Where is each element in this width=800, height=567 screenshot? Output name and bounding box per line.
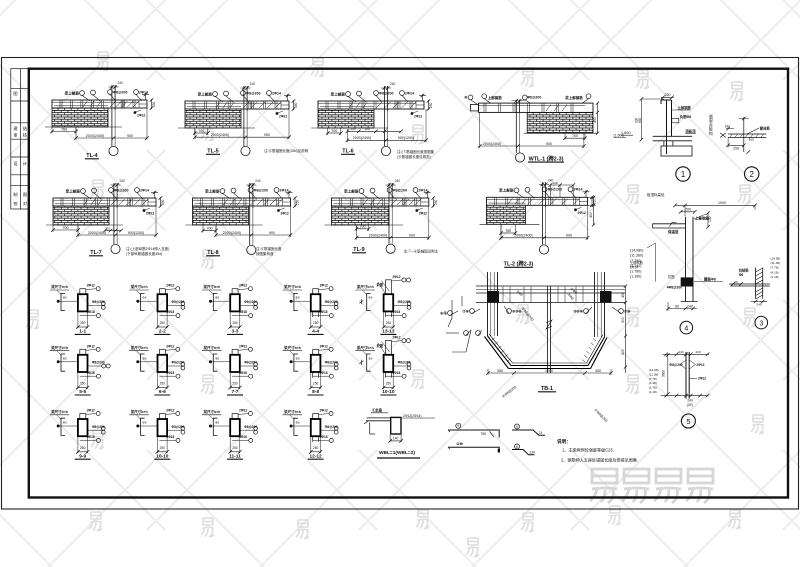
svg-text:TL-5: TL-5 xyxy=(207,149,218,155)
detail 3: bottom dim xyxy=(751,301,767,303)
detail TB-1: joint blocks xyxy=(487,291,499,303)
svg-text:审: 审 xyxy=(13,132,17,139)
svg-text:窗台筋: 窗台筋 xyxy=(760,125,771,130)
detail 3: left dim xyxy=(729,283,741,285)
svg-text:9: 9 xyxy=(457,424,459,428)
section 7-7: beam section xyxy=(230,355,240,372)
svg-text:Φ6: Φ6 xyxy=(739,273,744,277)
detail TL-4: rebar leaders xyxy=(80,91,85,96)
rebar shape detail a3: shape xyxy=(448,447,499,452)
svg-text:Φ6: Φ6 xyxy=(63,356,67,360)
svg-text:250: 250 xyxy=(313,382,319,386)
svg-text:梁尺寸b×h: 梁尺寸b×h xyxy=(203,345,221,350)
section 7-7: width dimension xyxy=(230,373,240,389)
section 10-10: width dimension xyxy=(158,437,168,453)
detail TL-4: sub dimension xyxy=(51,127,53,134)
detail TL-7: beam xyxy=(53,198,156,206)
detail TL-8: beam xyxy=(193,198,291,206)
detail WTL-1: beam left end cap xyxy=(470,105,478,111)
svg-text:240: 240 xyxy=(120,179,126,183)
svg-text:1-1: 1-1 xyxy=(79,329,86,335)
detail TL-9: column xyxy=(386,183,396,244)
detail 1: left vertical dim xyxy=(640,97,664,141)
svg-text:TL-2 (跨2-3): TL-2 (跨2-3) xyxy=(504,260,534,268)
section 11-11: width dimension xyxy=(230,437,240,453)
svg-text:TL-7: TL-7 xyxy=(90,250,101,256)
detail TB-1: leader circles left xyxy=(448,311,453,316)
detail TL-9: beam diagonal hatch xyxy=(391,199,421,205)
svg-text:2Φ12: 2Φ12 xyxy=(392,275,400,279)
svg-text:(1.780): (1.780) xyxy=(630,269,641,273)
detail TB-1: leader circles right xyxy=(584,309,589,314)
svg-text:3Φ18: 3Φ18 xyxy=(320,435,328,439)
section WBL: slab xyxy=(366,418,391,421)
svg-text:(14.980): (14.980) xyxy=(630,249,643,253)
rebar shape detail a1: label xyxy=(456,423,461,428)
section 5-5: stirrup bracket xyxy=(61,354,65,371)
svg-text:⑦⑧: ⑦⑧ xyxy=(624,308,631,313)
svg-text:2Φ12: 2Φ12 xyxy=(320,344,328,348)
svg-text:2Φ12: 2Φ12 xyxy=(239,409,247,413)
svg-text:负筋: 负筋 xyxy=(376,282,383,287)
rebar shape detail a2: shape xyxy=(512,430,545,435)
detail TL-9: sub dimension xyxy=(356,225,358,231)
svg-text:3-3: 3-3 xyxy=(232,329,239,335)
section 13-13: beam section xyxy=(384,294,394,311)
detail 2: star mark xyxy=(720,133,726,138)
detail WTL-1: rebar leaders xyxy=(468,95,473,100)
detail TL-7: brick wall xyxy=(53,206,109,225)
detail TL-8: beam end hook and dim xyxy=(286,191,297,208)
detail TL-9: axis circle xyxy=(386,244,395,253)
svg-text:构: 构 xyxy=(709,131,713,136)
section 8-8: stirrup bracket xyxy=(294,354,298,371)
svg-text:Φ8@200: Φ8@200 xyxy=(393,188,407,192)
section 12-12: stirrup bracket xyxy=(294,418,298,435)
svg-text:140: 140 xyxy=(393,437,399,441)
detail 3: slab lines xyxy=(730,284,770,286)
section 7-7: left bar blob xyxy=(209,360,212,363)
svg-text:注:⑥筋锚固长度: 注:⑥筋锚固长度 xyxy=(256,246,282,251)
svg-text:5-5: 5-5 xyxy=(79,389,86,395)
section 7-7: stirrup bracket xyxy=(213,354,217,371)
section 11-11: slab stub xyxy=(232,414,238,420)
section 3-3: width dimension xyxy=(230,312,240,328)
svg-text:2Φ12(2Φ14): 2Φ12(2Φ14) xyxy=(403,414,421,418)
section 6-6: stirrup bracket xyxy=(141,354,145,371)
watermark logo bottom right xyxy=(590,469,713,503)
svg-text:240: 240 xyxy=(395,179,401,183)
svg-text:Φ8@200: Φ8@200 xyxy=(113,90,127,94)
section 3-3: stirrup bracket xyxy=(213,293,217,310)
svg-text:(7.78): (7.78) xyxy=(771,266,779,270)
detail TL-8: beam stirrups xyxy=(195,199,279,206)
svg-text:TL-8: TL-8 xyxy=(207,250,218,256)
detail 2: leader xyxy=(747,128,759,134)
svg-text:梁尺寸b×h: 梁尺寸b×h xyxy=(130,345,148,350)
signature strip table xyxy=(11,69,29,209)
detail TL-5: beam stirrups xyxy=(187,102,277,109)
svg-text:(下部纵筋锚固长度35d): (下部纵筋锚固长度35d) xyxy=(126,251,162,256)
detail TL-6: brick wall xyxy=(318,109,374,128)
section 13-13: lower stub xyxy=(386,311,392,317)
svg-text:2Φ12: 2Φ12 xyxy=(698,377,706,381)
section 10-10b: slab stub xyxy=(386,340,392,354)
detail TL-5: beam diagonal hatch xyxy=(243,102,281,108)
svg-text:(⑥筋锚固长度见规范): (⑥筋锚固长度见规范) xyxy=(397,154,431,159)
svg-text:250: 250 xyxy=(434,199,438,205)
detail TL-8: ground line xyxy=(186,224,263,226)
rebar shape detail a1: shape xyxy=(448,430,499,438)
svg-text:Φ8@200: Φ8@200 xyxy=(172,300,185,304)
svg-text:250: 250 xyxy=(313,321,319,325)
section 8-8: slab stub xyxy=(313,349,319,355)
svg-text:拉结筋: 拉结筋 xyxy=(739,268,750,273)
section 6-6: width dimension xyxy=(158,373,168,389)
svg-text:①负筋: ①负筋 xyxy=(372,408,383,413)
svg-text:梁上部钢筋: 梁上部钢筋 xyxy=(564,95,583,100)
detail 5: bottom dim xyxy=(661,395,709,397)
svg-text:TB-1: TB-1 xyxy=(541,386,553,392)
section 5-5: width dimension xyxy=(78,373,88,389)
svg-text:2Φ12: 2Φ12 xyxy=(419,212,427,216)
detail 1: wall lines xyxy=(661,100,672,154)
detail WTL-1: axis circle xyxy=(515,153,524,162)
detail 4: waist bar leader xyxy=(694,281,723,283)
detail TL-7: column xyxy=(111,183,121,244)
svg-text:梁尺寸b×h: 梁尺寸b×h xyxy=(356,284,374,289)
svg-text:1000: 1000 xyxy=(718,201,726,205)
svg-text:腰筋Φ8: 腰筋Φ8 xyxy=(703,277,716,282)
svg-text:梁尺寸b×h: 梁尺寸b×h xyxy=(356,345,374,350)
detail TL-4: main dimensions xyxy=(75,128,77,140)
svg-text:梁上部筋: 梁上部筋 xyxy=(330,91,346,96)
detail TL-2: beam xyxy=(487,197,588,205)
svg-text:240: 240 xyxy=(695,350,700,354)
svg-text:60: 60 xyxy=(750,137,754,141)
detail 4: bottom dims xyxy=(668,308,697,310)
svg-text:⑦⑧: ⑦⑧ xyxy=(463,308,470,313)
svg-text:240: 240 xyxy=(390,82,396,86)
section 10-10: beam section xyxy=(158,419,168,436)
section 5-5: slab stub xyxy=(80,349,86,355)
svg-text:5: 5 xyxy=(516,425,518,429)
svg-text:250: 250 xyxy=(80,446,86,450)
detail TB-1: leg hatch xyxy=(492,338,596,362)
svg-text:700: 700 xyxy=(331,129,337,133)
svg-text:(4.18): (4.18) xyxy=(771,270,779,274)
svg-text:2Φ12: 2Φ12 xyxy=(279,115,287,119)
detail TL-4: column xyxy=(109,85,119,146)
detail TL-4: brick wall xyxy=(52,108,108,127)
detail 4: wall xyxy=(686,217,694,302)
detail TL-4: ground line xyxy=(45,126,122,128)
svg-text:3Φ18: 3Φ18 xyxy=(166,435,174,439)
svg-text:Φ8@200: Φ8@200 xyxy=(527,96,541,100)
svg-text:2Φ14: 2Φ14 xyxy=(419,188,428,192)
detail TL-2: beam stirrups xyxy=(489,198,576,205)
svg-text:2Φ12: 2Φ12 xyxy=(414,115,422,119)
svg-text:梁尺寸b×h: 梁尺寸b×h xyxy=(50,345,68,350)
detail TL-2: axis circle xyxy=(539,245,548,254)
svg-text:900: 900 xyxy=(127,134,133,138)
svg-text:250: 250 xyxy=(232,382,238,386)
detail TL-9: beam end rebar leader xyxy=(415,209,418,212)
svg-text:梁上部筋: 梁上部筋 xyxy=(204,188,220,193)
svg-text:750: 750 xyxy=(481,432,487,436)
section 1-1: slab stub xyxy=(80,289,86,295)
svg-text:900: 900 xyxy=(269,231,275,235)
svg-text:250: 250 xyxy=(80,382,86,386)
svg-text:250: 250 xyxy=(161,199,165,205)
svg-text:对: 对 xyxy=(23,200,27,206)
svg-text:注:①~⑥筋锚固见附注: 注:①~⑥筋锚固见附注 xyxy=(404,249,439,254)
svg-text:Φ6: Φ6 xyxy=(215,421,219,425)
svg-text:梁上部筋: 梁上部筋 xyxy=(343,188,359,193)
svg-text:2Φ14: 2Φ14 xyxy=(280,188,289,192)
svg-text:梁尺寸b×h: 梁尺寸b×h xyxy=(283,284,301,289)
svg-text:上部纵筋: 上部纵筋 xyxy=(630,260,643,265)
detail WTL-1: ground line xyxy=(524,132,598,134)
svg-text:2000(2400): 2000(2400) xyxy=(369,234,387,238)
section 13-13: left tick xyxy=(359,299,363,304)
svg-text:3Φ18: 3Φ18 xyxy=(166,310,174,314)
detail TL-2: beam diagonal hatch xyxy=(528,198,580,204)
svg-text:梁上部筋: 梁上部筋 xyxy=(64,90,80,95)
svg-text:700: 700 xyxy=(207,226,213,230)
svg-text:250: 250 xyxy=(232,446,238,450)
svg-text:梁尺寸b×h: 梁尺寸b×h xyxy=(50,284,68,289)
detail TL-2: top right small dims xyxy=(550,184,573,186)
svg-text:700: 700 xyxy=(63,226,69,230)
svg-text:10-10: 10-10 xyxy=(156,453,169,459)
detail TL-6: beam diagonal hatch xyxy=(376,102,416,108)
detail TL-2: sub dimension xyxy=(500,224,502,235)
svg-text:(1.18): (1.18) xyxy=(771,275,779,279)
detail 2: bottom dims xyxy=(728,144,744,146)
section 12-12: lower stub xyxy=(313,436,319,442)
svg-text:按图集构造: 按图集构造 xyxy=(256,251,274,256)
section WBL: beam section xyxy=(391,417,401,434)
svg-text:240: 240 xyxy=(255,179,261,183)
detail TL-7: extra sub dims xyxy=(105,230,121,232)
detail TL-9: beam end hook and dim xyxy=(424,191,435,208)
detail 4: top dims xyxy=(675,204,755,206)
svg-text:2Φ12: 2Φ12 xyxy=(146,212,154,216)
detail WTL-1: sub dimension xyxy=(565,133,585,140)
svg-text:Φ6: Φ6 xyxy=(215,296,219,300)
svg-text:WBL=1(WBL=2): WBL=1(WBL=2) xyxy=(379,450,415,456)
detail WTL-1: beam stirrups xyxy=(484,104,573,112)
svg-text:2Φ12: 2Φ12 xyxy=(87,409,95,413)
svg-text:2000(2400): 2000(2400) xyxy=(353,136,371,140)
detail TL-5: brick wall xyxy=(185,109,241,128)
svg-text:(60): (60) xyxy=(687,403,693,407)
detail TL-7: ground line xyxy=(46,224,123,226)
svg-text:3Φ18: 3Φ18 xyxy=(87,371,95,375)
rebar shape detail a4: label xyxy=(515,444,520,449)
detail TL-4: beam diagonal hatch xyxy=(110,101,139,107)
detail 4: black block xyxy=(681,277,694,286)
svg-text:12-12: 12-12 xyxy=(309,453,322,459)
section 4-4: left bar blob xyxy=(290,300,293,303)
section 6-6: slab stub xyxy=(159,349,165,355)
section 2-2: stirrup bracket xyxy=(141,293,145,310)
svg-text:2Φ12: 2Φ12 xyxy=(166,344,174,348)
svg-text:2Φ12: 2Φ12 xyxy=(137,114,145,118)
svg-text:2Φ12: 2Φ12 xyxy=(320,284,328,288)
svg-text:注:(①筋锚固长度按图集: 注:(①筋锚固长度按图集 xyxy=(397,149,435,154)
section 11-11: beam section xyxy=(230,419,240,436)
detail 1: footing xyxy=(661,141,692,156)
detail 3: wall xyxy=(756,268,763,299)
rebar shape detail a4: shape xyxy=(512,450,535,455)
svg-text:2000(2400): 2000(2400) xyxy=(514,234,532,238)
detail 4: wall bottom xyxy=(681,301,698,303)
detail TL-4: axis circle xyxy=(109,146,118,155)
svg-text:梁上部筋: 梁上部筋 xyxy=(197,91,213,96)
detail TL-2: beam end hook and dim xyxy=(583,190,594,207)
detail TL-5: ground line xyxy=(178,127,255,129)
section 1-1: beam section xyxy=(78,294,88,311)
svg-text:制: 制 xyxy=(13,191,17,198)
detail TL-9: beam stirrups xyxy=(334,199,417,206)
svg-text:3Φ18: 3Φ18 xyxy=(166,371,174,375)
svg-text:2Φ14: 2Φ14 xyxy=(630,266,638,270)
svg-text:240: 240 xyxy=(687,399,693,403)
detail TL-8: axis circle xyxy=(247,245,256,254)
svg-text:Φ8@200: Φ8@200 xyxy=(244,361,257,365)
svg-text:240: 240 xyxy=(678,350,683,354)
detail TL-4: beam xyxy=(52,100,147,108)
svg-text:350: 350 xyxy=(595,369,601,373)
svg-text:Φ8@200: Φ8@200 xyxy=(246,91,260,95)
detail WTL-1: beam xyxy=(479,103,594,112)
svg-text:①⑩: ①⑩ xyxy=(457,441,464,446)
svg-text:1: 1 xyxy=(681,170,685,179)
detail TL-6: column xyxy=(381,86,391,146)
svg-text:梁上部筋: 梁上部筋 xyxy=(498,188,514,193)
detail TB-1: left column xyxy=(488,272,498,336)
section 10-10b: width dimension xyxy=(384,373,394,389)
section 2-2: beam section xyxy=(158,294,168,311)
detail TL-7: beam stirrups xyxy=(55,199,144,206)
detail 2: slab hatch xyxy=(730,134,764,137)
detail TL-6: sub dimension xyxy=(327,128,329,135)
svg-text:3Φ18: 3Φ18 xyxy=(320,310,328,314)
svg-text:13-13: 13-13 xyxy=(382,329,395,335)
svg-text:8-8: 8-8 xyxy=(312,389,319,395)
detail TB-1: band stirrups xyxy=(476,287,625,303)
svg-text:1200: 1200 xyxy=(545,369,553,373)
detail 3: number circle xyxy=(755,316,768,329)
svg-text:Φ8@200: Φ8@200 xyxy=(172,425,185,429)
section 8-8: width dimension xyxy=(311,373,321,389)
svg-text:顶板顶: 顶板顶 xyxy=(685,129,696,134)
svg-text:900(1200): 900(1200) xyxy=(128,231,144,235)
svg-text:2000(2400): 2000(2400) xyxy=(211,133,229,137)
section WBL: left hook xyxy=(364,421,375,434)
section 12-12: slab stub xyxy=(313,414,319,420)
svg-text:700: 700 xyxy=(198,129,204,133)
svg-text:2Φ12: 2Φ12 xyxy=(239,344,247,348)
svg-text:板顶标高处: 板顶标高处 xyxy=(647,192,665,197)
detail TL-2: end vertical dim xyxy=(593,197,595,225)
detail TL-6: rebar leaders xyxy=(346,92,351,97)
svg-text:(11.380): (11.380) xyxy=(630,254,643,258)
detail TL-7: beam diagonal hatch xyxy=(111,199,148,205)
detail WTL-1: end vertical dim xyxy=(597,103,599,133)
svg-text:注:⑥筋锚固长度(35d)见说明: 注:⑥筋锚固长度(35d)见说明 xyxy=(264,148,309,153)
svg-text:3Φ18: 3Φ18 xyxy=(320,371,328,375)
section 2-2: left bar blob xyxy=(136,300,139,303)
section 6-6: left bar blob xyxy=(136,360,139,363)
svg-text:11-11: 11-11 xyxy=(229,453,241,459)
svg-text:2、钢筋伸入支座处锚固长度及搭接见图集.: 2、钢筋伸入支座处锚固长度及搭接见图集. xyxy=(561,457,638,463)
section 4-4: width dimension xyxy=(311,312,321,328)
detail TL-5: beam end hook and dim xyxy=(284,94,295,111)
svg-text:(7.78): (7.78) xyxy=(649,377,657,381)
svg-text:900: 900 xyxy=(566,234,572,238)
detail TL-5: beam xyxy=(185,101,289,109)
detail TL-7: beam end rebar leader xyxy=(143,209,146,212)
detail TL-4: beam end rebar leader xyxy=(134,111,137,114)
svg-text:Φ8@200: Φ8@200 xyxy=(325,425,338,429)
section 9-9: slab stub xyxy=(80,414,86,420)
svg-text:Φ6: Φ6 xyxy=(368,296,372,300)
detail TL-2: main dimensions xyxy=(500,225,502,240)
svg-text:拉筋: 拉筋 xyxy=(668,274,675,279)
section 13-13: width dimension xyxy=(384,312,394,328)
svg-text:250: 250 xyxy=(160,446,166,450)
svg-text:Φ8@200: Φ8@200 xyxy=(398,300,411,304)
section 11-11: stirrup bracket xyxy=(213,418,217,435)
detail TL-7: sub dimension xyxy=(52,225,54,232)
detail 4: top slab xyxy=(653,222,687,228)
svg-text:250: 250 xyxy=(160,321,166,325)
detail TL-6: beam xyxy=(318,101,424,109)
detail TL-6: main dimensions xyxy=(346,129,348,142)
detail TL-2: rebar leaders xyxy=(514,188,519,193)
section 9-9: width dimension xyxy=(78,437,88,453)
svg-text:梁尺寸b×h: 梁尺寸b×h xyxy=(283,409,301,414)
section WBL: dim xyxy=(390,435,401,442)
section 10-10b: lower stub xyxy=(386,372,392,378)
svg-text:Φ8@200: Φ8@200 xyxy=(325,300,338,304)
detail TL-6: beam end rebar leader xyxy=(411,112,414,115)
svg-text:3: 3 xyxy=(759,320,763,327)
svg-text:200: 200 xyxy=(685,208,691,212)
svg-text:说明：: 说明： xyxy=(557,438,571,445)
rebar shape detail a2: label xyxy=(515,424,520,429)
section 9-9: beam section xyxy=(78,419,88,436)
svg-text:250: 250 xyxy=(386,382,392,386)
svg-text:2Φ14: 2Φ14 xyxy=(140,188,149,192)
svg-text:5: 5 xyxy=(686,417,690,426)
svg-text:6: 6 xyxy=(516,445,518,449)
detail TL-6: beam stirrups xyxy=(320,102,412,109)
svg-text:250: 250 xyxy=(296,199,300,205)
svg-text:240: 240 xyxy=(250,82,256,86)
detail TL-8: main dimensions xyxy=(215,226,217,237)
svg-text:900(1200): 900(1200) xyxy=(398,136,414,140)
svg-text:2Φ14: 2Φ14 xyxy=(272,91,281,95)
detail TL-6: ground line xyxy=(311,127,388,129)
detail TL-9: beam xyxy=(332,198,429,206)
section 11-11: left bar blob xyxy=(209,425,212,428)
svg-text:250: 250 xyxy=(386,321,392,325)
svg-text:Φ8@200: Φ8@200 xyxy=(244,425,257,429)
